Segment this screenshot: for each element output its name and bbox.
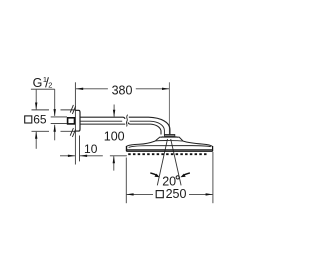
spray angle line right: [171, 139, 181, 185]
angle arc arrow left: [150, 173, 157, 176]
flange top extension line: [32, 109, 76, 111]
dimension 100: [104, 105, 125, 171]
label G1/2: [33, 75, 53, 90]
250 right extension line: [212, 152, 214, 203]
wall line (left extension of 380): [74, 82, 76, 164]
head left edge: [126, 146, 128, 151]
dimension square-65 text: [25, 112, 47, 126]
head top hump: [155, 137, 183, 141]
spray face reference line: [110, 155, 127, 157]
angle arc arrow right: [183, 173, 190, 176]
flange bottom extension line: [32, 130, 76, 132]
shower head lip line: [129, 146, 211, 148]
G1/2 leader upper arrow: [54, 89, 56, 116]
nozzle dashes: [128, 153, 206, 155]
dimension square-250: [126, 187, 213, 201]
shower head top surface: [127, 141, 156, 146]
G1/2 leader lower arrow: [54, 125, 56, 141]
arm tube top line: [80, 117, 170, 134]
dimension 380: [76, 83, 169, 97]
svg-text:2: 2: [48, 80, 52, 89]
svg-text:G: G: [33, 76, 43, 90]
dimension square-65 upper arrow line: [35, 90, 37, 110]
dimension square-65 lower arrow line: [35, 132, 37, 149]
head right edge: [212, 146, 214, 151]
spray angle line left: [157, 139, 167, 185]
svg-text:380: 380: [112, 83, 133, 97]
arm tube middle line: [80, 121, 164, 134]
right extension line of 380 (to shower head center): [168, 82, 170, 134]
head rim lines: [126, 149, 212, 151]
svg-text:10: 10: [84, 142, 98, 156]
angle 20 degrees label: [162, 175, 179, 189]
dimension 10: [60, 142, 103, 157]
arm break squiggle: [126, 115, 127, 127]
svg-text:100: 100: [104, 130, 125, 144]
flange (escutcheon edge view): [75, 110, 80, 131]
svg-text:250: 250: [166, 187, 187, 201]
ball joint nut: [164, 135, 174, 137]
wall hatch above flange: [70, 105, 75, 114]
wall hatch below flange: [70, 128, 75, 137]
arm tube bottom line: [80, 122, 161, 134]
G1/2 leader underline: [31, 88, 55, 90]
250 left extension line: [125, 158, 127, 204]
svg-text:65: 65: [33, 112, 47, 126]
svg-text:20: 20: [162, 175, 176, 189]
union square fitting: [68, 118, 75, 124]
supply pipe stub lines: [51, 117, 67, 124]
flange front extension line: [79, 136, 81, 162]
